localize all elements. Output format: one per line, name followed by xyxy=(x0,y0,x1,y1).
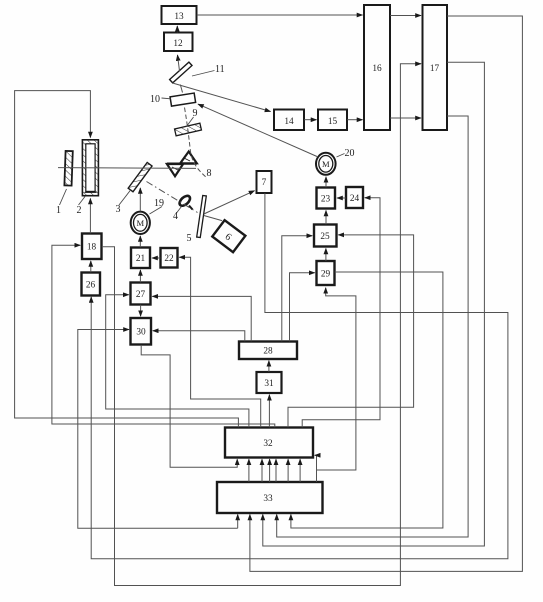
wire 33 to 32 stem b xyxy=(261,459,263,482)
pointer label 3 xyxy=(119,190,131,206)
pointer label 11 xyxy=(192,71,215,77)
svg-text:16: 16 xyxy=(372,64,382,74)
wire 14 to 15 xyxy=(304,119,316,121)
wire 28 to 29 left xyxy=(290,273,315,342)
block 13 xyxy=(162,6,197,24)
svg-text:2: 2 xyxy=(77,205,82,216)
wire 32 to 24 right xyxy=(302,198,380,428)
wire 32 to cell 2 loop xyxy=(15,91,239,428)
block 7 xyxy=(257,171,272,193)
svg-text:26: 26 xyxy=(86,281,96,291)
svg-text:24: 24 xyxy=(350,194,360,204)
mirror 3 xyxy=(128,162,152,191)
wire 28 to 30 right xyxy=(153,331,245,342)
pointer label 10 xyxy=(162,97,171,100)
svg-text:13: 13 xyxy=(174,12,184,22)
wire 32 to 25 right xyxy=(288,235,414,427)
block 15 xyxy=(318,110,347,131)
svg-text:10: 10 xyxy=(150,94,160,105)
block 31 xyxy=(257,372,282,393)
svg-text:M: M xyxy=(136,218,144,228)
svg-text:20: 20 xyxy=(345,148,355,159)
svg-text:14: 14 xyxy=(284,117,294,127)
block 33 xyxy=(217,482,323,513)
beam 20 to 10 xyxy=(198,104,317,156)
axis 3-4-5 dash-dot xyxy=(147,182,198,213)
wire 27 to 30 xyxy=(140,305,142,317)
photodetector 6 xyxy=(212,220,245,252)
wire 17 out bottom to 33 xyxy=(277,116,468,537)
block 26 xyxy=(82,273,101,296)
pointer label 19 xyxy=(150,207,163,215)
svg-text:M: M xyxy=(322,159,330,169)
svg-text:22: 22 xyxy=(164,254,174,264)
svg-text:9: 9 xyxy=(193,108,198,119)
wire 33 to 29 bottom xyxy=(317,288,356,482)
wire 17 out mid to 33 xyxy=(263,62,485,546)
block 23 xyxy=(317,188,336,209)
wire 29 to 25 xyxy=(325,249,327,261)
svg-text:30: 30 xyxy=(136,328,146,338)
mirror 11 xyxy=(170,62,192,83)
beam 5 to 7 xyxy=(204,191,255,214)
pointer label 9 xyxy=(187,117,194,127)
wire 32 to 31 xyxy=(268,395,270,428)
block 28 xyxy=(239,342,297,360)
block 30 xyxy=(131,318,152,345)
wire 12 to 13 xyxy=(176,26,178,32)
wire 29 right to 33 xyxy=(291,272,443,528)
wire 31 to 28 xyxy=(268,361,270,372)
pointer label 4 xyxy=(177,207,182,214)
modulator 10 xyxy=(170,93,196,106)
svg-text:8: 8 xyxy=(207,168,212,179)
svg-text:15: 15 xyxy=(328,117,338,127)
wire 21 to motor 19 xyxy=(139,236,141,247)
svg-text:7: 7 xyxy=(262,178,267,188)
wire 22 to 21 xyxy=(152,257,160,259)
block 22 xyxy=(161,248,178,268)
wire 16 to 17 top xyxy=(390,15,421,17)
svg-text:5: 5 xyxy=(187,233,192,244)
svg-text:21: 21 xyxy=(136,254,146,264)
pointer label 20 xyxy=(337,154,345,158)
wire 15 to 16 xyxy=(347,119,362,121)
wire 26 to 18 xyxy=(90,261,92,272)
wire 33 to 32 stem c xyxy=(269,459,271,482)
wire 32 to 22 xyxy=(179,257,260,427)
wire 33 to 32 stem d xyxy=(275,459,277,482)
wire 24 to 23 xyxy=(337,197,346,199)
block 29 xyxy=(317,261,335,285)
wire 18 to cell 2 xyxy=(89,199,91,234)
motor 19 xyxy=(131,212,150,234)
svg-text:28: 28 xyxy=(263,347,273,357)
wire 30 to 32 bottom xyxy=(141,345,237,467)
wire 18 to 17 mid xyxy=(102,64,421,586)
block 27 xyxy=(131,283,151,305)
wire 25 to 23 xyxy=(325,211,327,225)
wire stem 33 bottom 1 xyxy=(237,515,239,529)
svg-text:29: 29 xyxy=(321,270,331,280)
wire 7 to 26 xyxy=(91,193,508,559)
svg-text:4: 4 xyxy=(173,211,178,222)
wire 28 to 27 right xyxy=(152,296,251,341)
svg-text:27: 27 xyxy=(136,290,146,300)
wire 33 to 32 stem e xyxy=(287,459,289,482)
filter 1 xyxy=(64,151,72,186)
pointer label 2 xyxy=(79,197,86,206)
pointer label 1 xyxy=(60,189,67,205)
beam 5 to 6 xyxy=(204,216,222,221)
svg-text:32: 32 xyxy=(263,439,273,449)
wire 33 to 32 stem a xyxy=(248,459,250,482)
beam 11 to 14 xyxy=(173,83,271,112)
svg-text:12: 12 xyxy=(173,39,183,49)
wire 32 to 27 left xyxy=(106,295,249,428)
wire 28 to 25 left xyxy=(282,236,312,342)
svg-text:17: 17 xyxy=(430,64,440,74)
block 25 xyxy=(314,225,337,247)
wire 17 out top to 33 xyxy=(250,16,523,571)
wire 13 to 16 xyxy=(197,14,363,16)
block 18 xyxy=(82,234,102,260)
wire 33 up to 30 left xyxy=(78,330,238,529)
block 21 xyxy=(131,248,150,269)
block 24 xyxy=(346,187,363,208)
svg-text:31: 31 xyxy=(264,379,274,389)
svg-text:23: 23 xyxy=(321,195,331,205)
block 32 xyxy=(225,428,313,458)
motor 20 xyxy=(316,153,336,175)
block 17 xyxy=(423,5,448,130)
svg-text:33: 33 xyxy=(263,494,273,504)
beam 10-9-8 dashed xyxy=(185,108,207,178)
wire 33 to 32 right xyxy=(315,455,317,470)
block 16 xyxy=(364,5,390,130)
grating 9 xyxy=(175,123,202,136)
svg-text:25: 25 xyxy=(320,232,330,242)
svg-text:19: 19 xyxy=(154,198,164,209)
wire motor 19 to mirror 3 xyxy=(139,188,141,211)
block 12 xyxy=(164,33,193,52)
cell 2 xyxy=(82,140,98,196)
wire 16 to 17 bottom xyxy=(390,117,421,119)
svg-text:18: 18 xyxy=(87,243,97,253)
svg-text:3: 3 xyxy=(116,204,121,215)
beam 11 to 12 xyxy=(178,55,180,71)
prism 8 xyxy=(167,152,197,177)
beam 10 to 11 xyxy=(180,85,182,93)
wire 32 to 18 left xyxy=(52,245,275,427)
wire 33 to 32 stem f xyxy=(299,459,301,482)
wire 27 to 21 xyxy=(139,270,141,282)
beam axis horizontal xyxy=(58,167,196,170)
raster 5 xyxy=(197,195,207,237)
wire 23 to motor 20 xyxy=(325,177,327,187)
svg-text:1: 1 xyxy=(56,205,61,216)
lens 4 xyxy=(178,194,192,208)
svg-text:11: 11 xyxy=(215,64,225,75)
block 14 xyxy=(274,110,304,131)
